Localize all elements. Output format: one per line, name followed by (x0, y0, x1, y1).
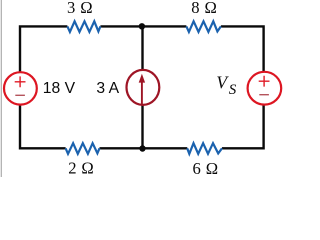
svg-text:3 Ω: 3 Ω (67, 0, 93, 17)
wire top-left (node top to 3ohm) (20, 26, 67, 73)
resistor R3 2 ohm (66, 143, 100, 154)
svg-text:3 A: 3 A (96, 80, 119, 97)
svg-text:V: V (216, 73, 229, 93)
resistor R4 6 ohm (187, 143, 222, 154)
wire bottom-right (6ohm to right source) (222, 104, 264, 149)
resistor R2 8 ohm (186, 21, 221, 32)
V1 plus sign (15, 76, 26, 87)
node top junction (139, 23, 145, 29)
wire bottom mid (2ohm to 6ohm across bottom junction) (100, 147, 188, 149)
I1 arrow head (139, 74, 145, 83)
voltage source VS circle (248, 72, 282, 105)
I1 arrow shaft (141, 82, 143, 104)
svg-text:6 Ω: 6 Ω (193, 159, 219, 177)
page edge line (0, 0, 2, 177)
wire middle bottom stub (141, 105, 143, 149)
wire middle top stub (141, 26, 143, 71)
node bottom junction (139, 145, 145, 151)
voltage source V1 18V circle (4, 72, 37, 104)
wire left bottom (18V source to bottom-left corner) (20, 104, 66, 149)
current source I1 circle (126, 70, 159, 105)
wire top-right (8ohm to right source) (221, 26, 264, 72)
svg-text:8 Ω: 8 Ω (191, 0, 217, 17)
svg-text:2 Ω: 2 Ω (68, 159, 94, 178)
resistor R1 3 ohm (67, 21, 100, 32)
V1 minus sign (15, 94, 25, 96)
VS plus sign (259, 76, 270, 87)
svg-text:18 V: 18 V (43, 80, 76, 97)
wire top mid (3ohm to 8ohm across top junction) (100, 25, 186, 27)
svg-text:S: S (229, 82, 237, 98)
VS minus sign (259, 94, 269, 96)
